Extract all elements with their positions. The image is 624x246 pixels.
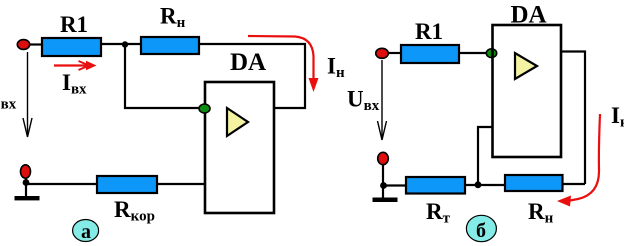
- op-amp U1 box DA: [205, 49, 274, 213]
- input terminal X3: [376, 48, 389, 58]
- label a: [73, 220, 99, 244]
- wire: [388, 52, 401, 54]
- node input (green): [199, 104, 210, 113]
- load current arrow In: [248, 36, 345, 92]
- label b: [466, 215, 496, 242]
- node input (green): [486, 49, 496, 58]
- wire: [383, 184, 406, 186]
- wire: [125, 45, 199, 109]
- ground terminal X4: [378, 152, 389, 164]
- node junction: [23, 179, 30, 186]
- current arrow Ivx: [54, 61, 97, 98]
- feedback wire: [478, 127, 492, 185]
- resistor Rn (top): [141, 4, 199, 55]
- node junction: [475, 181, 482, 188]
- wire: [29, 43, 42, 45]
- voltage arrow Uvx: [347, 60, 387, 140]
- wire: [459, 52, 492, 54]
- output wire: [561, 52, 585, 185]
- svg-text:а: а: [81, 221, 91, 243]
- op-amp U2 box DA: [493, 2, 562, 158]
- wire: [25, 178, 27, 197]
- svg-text:R1: R1: [60, 12, 88, 37]
- ground: [373, 198, 398, 203]
- resistor R1: [42, 12, 101, 56]
- op-amp triangle: [515, 53, 537, 79]
- svg-text:DA: DA: [510, 2, 546, 29]
- resistor Rn (b): [505, 175, 563, 227]
- svg-text:R1: R1: [415, 19, 443, 44]
- wire: [199, 44, 305, 108]
- resistor R1 (b): [401, 19, 459, 63]
- resistor Rt: [406, 177, 465, 227]
- svg-text:DA: DA: [230, 49, 266, 76]
- wire: [101, 43, 141, 45]
- ground terminal X2: [21, 165, 31, 178]
- load current arrow In (b): [557, 103, 624, 207]
- op-amp triangle: [227, 108, 248, 136]
- wire: [26, 183, 97, 185]
- node junction: [122, 41, 128, 47]
- svg-text:б: б: [476, 220, 486, 242]
- input voltage arrow Uvx: [0, 52, 32, 137]
- input terminal X1: [17, 40, 29, 50]
- wire: [157, 183, 205, 185]
- node junction: [380, 182, 387, 189]
- ground: [15, 196, 40, 200]
- wire: [563, 183, 586, 185]
- wire: [465, 184, 505, 186]
- wire: [382, 164, 384, 198]
- resistor Rkor: [97, 176, 157, 225]
